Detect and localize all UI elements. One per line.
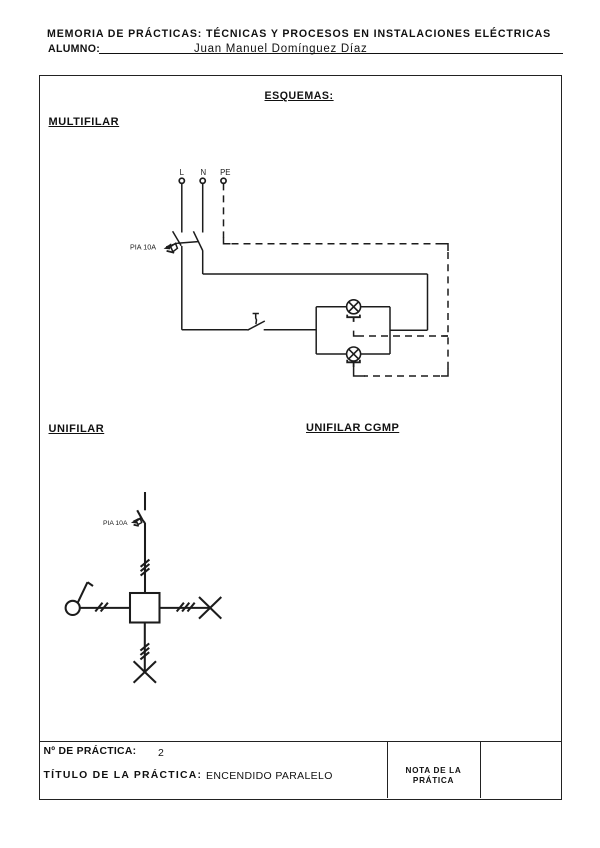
table text titulo — [44, 770, 203, 781]
wire N below breaker down — [202, 251, 204, 274]
wire bottom branch left — [316, 353, 346, 355]
svg-text:PIA 10A: PIA 10A — [130, 243, 156, 252]
unifilar breaker label PIA 10A — [103, 520, 128, 527]
wire L down to breaker — [181, 183, 183, 232]
heading MULTIFILAR — [49, 116, 120, 128]
wire N horizontal right — [203, 273, 428, 275]
unifilar wire box to switch — [80, 607, 130, 609]
unifilar breaker arrow — [131, 518, 142, 524]
table text nota — [387, 766, 480, 785]
unifilar breaker tail stroke — [134, 525, 139, 526]
header title — [47, 28, 551, 40]
breaker PIA 10A pole N blade — [193, 231, 203, 251]
junction box — [130, 593, 160, 623]
wire PE dashed right vertical — [447, 252, 449, 369]
unifilar conductor slashes left — [95, 603, 108, 612]
wire PE top right corner — [441, 244, 448, 251]
breaker PIA 10A tail stroke — [167, 251, 175, 253]
unifilar wire box down to bottom lamp — [144, 623, 146, 673]
heading ESQUEMAS — [265, 90, 334, 102]
lamp E2 — [347, 347, 361, 361]
lamp box right side — [389, 307, 391, 354]
unifilar supply wire — [144, 492, 146, 510]
table divider 1 — [387, 741, 388, 798]
wire top branch right — [361, 306, 390, 308]
unifilar conductor slashes bottom — [140, 643, 149, 659]
svg-text:N: N — [200, 168, 206, 177]
wire bottom branch right — [361, 353, 390, 355]
lamp box left side — [315, 307, 317, 354]
unifilar switch blade — [78, 582, 93, 602]
node L label — [180, 168, 185, 177]
wire top branch left — [316, 306, 346, 308]
node N label — [200, 168, 206, 177]
unifilar conductor slashes right — [177, 603, 195, 612]
unifilar wire box to right lamp — [160, 607, 211, 609]
lamp outlet bottom X — [134, 661, 156, 683]
lamp E1 — [347, 300, 361, 314]
wire N down right side — [427, 274, 429, 330]
breaker label PIA 10A — [130, 243, 156, 252]
outer page box — [39, 75, 562, 800]
breaker PIA 10A pole L blade — [173, 231, 182, 246]
wire PE dashed middle branch — [369, 335, 448, 337]
bottom table line — [39, 741, 561, 742]
switch S1 actuator T — [253, 314, 259, 325]
wire PE dashed top horizontal — [232, 243, 442, 245]
wire PE bottom right corner — [441, 369, 448, 377]
breaker PIA 10A release diamond — [171, 243, 178, 251]
unifilar wire breaker to box — [144, 523, 146, 593]
wire L horizontal to switch — [182, 329, 248, 331]
heading UNIFILAR — [49, 423, 105, 435]
unifilar breaker blade to wire — [142, 520, 145, 523]
wire PE solid corner at lamp E2 tail — [354, 367, 365, 376]
wire PE corner at lamp E1 tail — [354, 331, 364, 336]
terminal L — [179, 178, 184, 183]
wire PE corner at breaker level — [224, 238, 231, 244]
table text practica number — [44, 746, 137, 757]
header alumno label — [48, 43, 100, 55]
unifilar switch circle — [66, 601, 80, 615]
wire switch to lamp box — [264, 329, 317, 331]
lamp E2 holder — [347, 360, 360, 367]
heading UNIFILAR CGMP — [306, 422, 399, 434]
terminal N — [200, 178, 205, 183]
unifilar breaker blade — [137, 510, 142, 520]
unifilar conductor slashes top — [141, 560, 150, 576]
wire PE middle branch end piece — [443, 335, 449, 337]
breaker PIA 10A linkage bar with arrow — [164, 242, 198, 250]
unifilar breaker release diamond — [136, 519, 141, 525]
wire L below breaker down — [181, 246, 183, 330]
lamp outlet right X — [199, 597, 221, 619]
wire PE dashed down — [223, 183, 225, 238]
terminal PE — [221, 178, 226, 183]
svg-text:PE: PE — [220, 168, 230, 177]
svg-text:L: L — [180, 168, 185, 177]
alumno name — [194, 43, 367, 55]
lamp E1 holder — [347, 315, 360, 322]
svg-text:PIA 10A: PIA 10A — [103, 520, 128, 527]
alumno underline — [99, 53, 563, 54]
wire PE dashed bottom horizontal — [364, 375, 440, 377]
wire N into lamp box — [390, 329, 428, 331]
table divider 2 — [480, 741, 481, 798]
wire N down to breaker — [202, 183, 204, 232]
switch S1 blade — [248, 321, 265, 330]
node PE label — [220, 168, 230, 177]
